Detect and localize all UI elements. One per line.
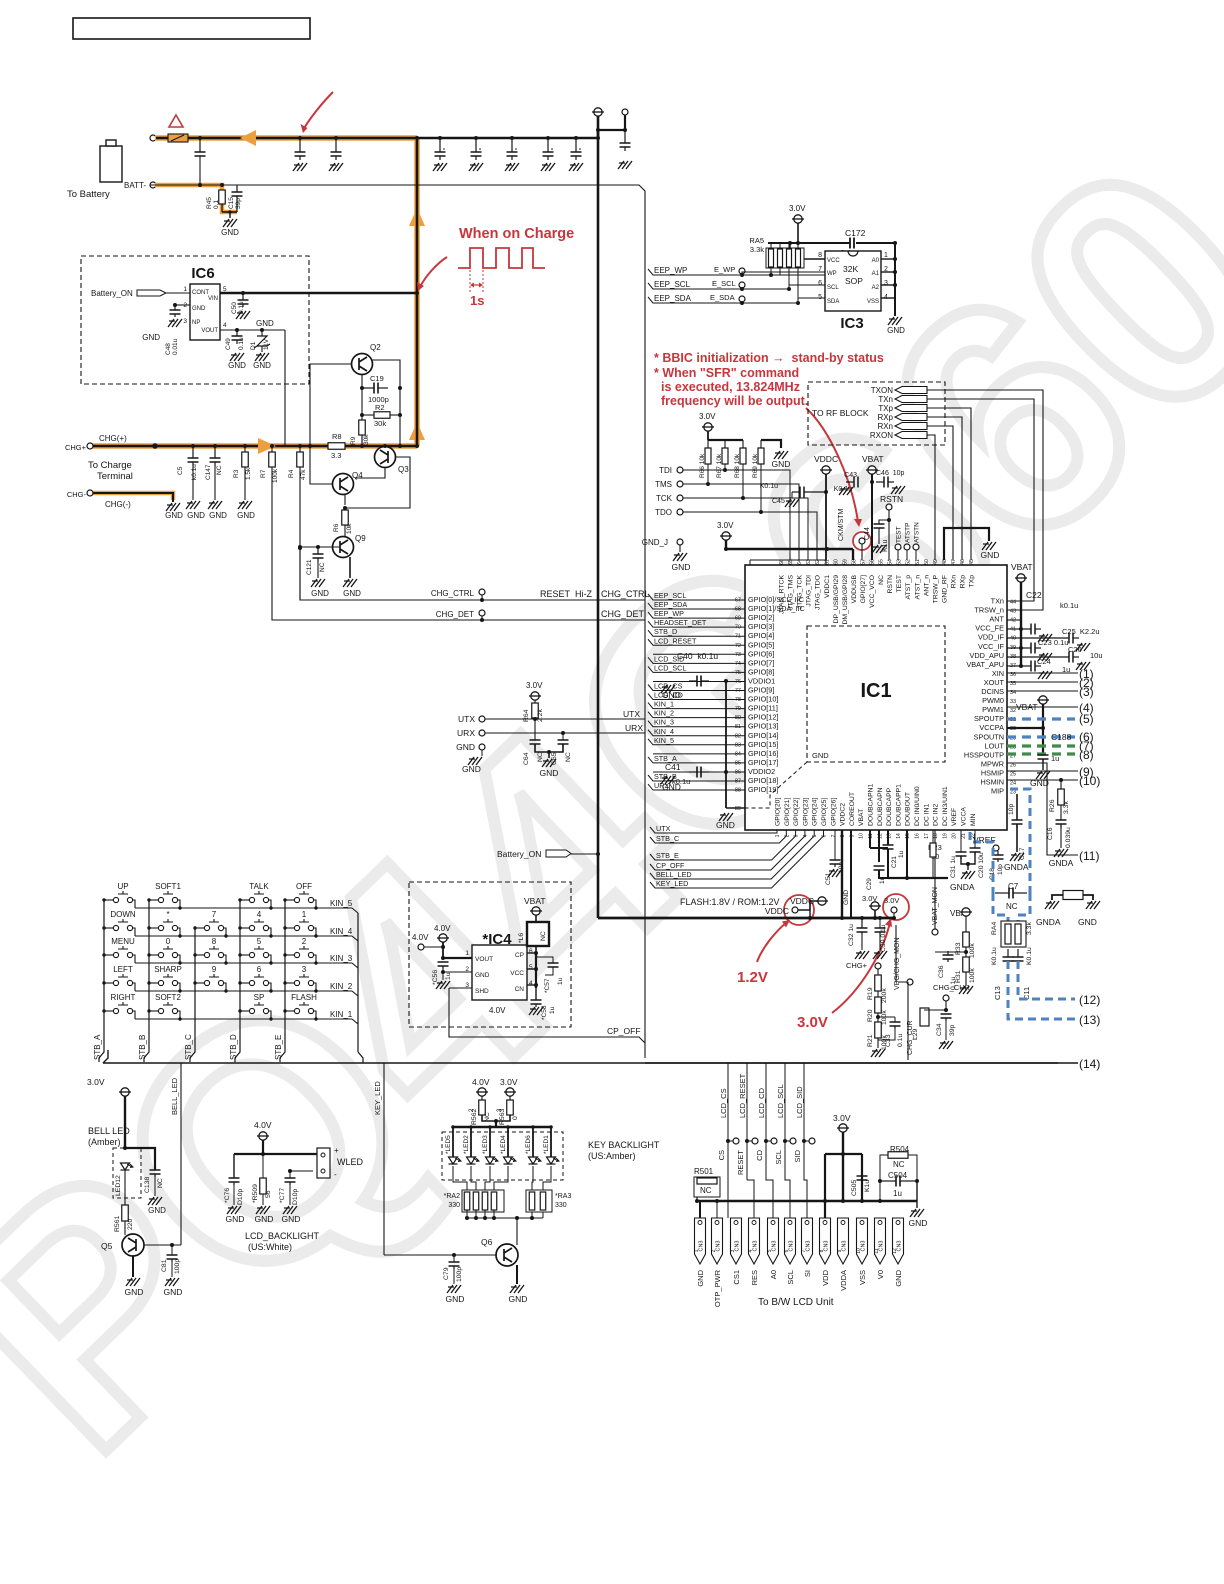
svg-text:VCC: VCC — [827, 258, 840, 264]
svg-text:*L6: *L6 — [518, 933, 525, 943]
IC4 body — [472, 945, 527, 1000]
svg-text:3.3k: 3.3k — [1026, 922, 1033, 935]
svg-text:LCD_SCL: LCD_SCL — [654, 663, 686, 672]
green dashed HSSPOUTP (8) — [1007, 752, 1075, 755]
svg-text:C31 1u: C31 1u — [950, 856, 957, 878]
svg-text:EEP_SCL: EEP_SCL — [654, 591, 686, 600]
svg-text:KIN_4: KIN_4 — [654, 727, 674, 736]
svg-text:R7: R7 — [260, 469, 267, 478]
resistor R4 47k — [298, 444, 302, 448]
svg-text:C23 0.1u: C23 0.1u — [1038, 638, 1068, 647]
svg-text:C19: C19 — [370, 374, 384, 383]
svg-text:RSTN: RSTN — [887, 575, 894, 594]
wire CHG_CUR column — [907, 982, 909, 1060]
svg-text:STB_C: STB_C — [656, 834, 679, 843]
connector pin CN3-12 — [893, 1218, 904, 1264]
svg-text:R8: R8 — [332, 432, 342, 441]
svg-text:DCINS: DCINS — [981, 687, 1004, 696]
red circle 3.0V — [883, 894, 909, 920]
capacitor C13 — [1007, 949, 1009, 957]
svg-text:GND_J: GND_J — [642, 538, 668, 547]
svg-text:LCD_SCL: LCD_SCL — [776, 1084, 785, 1118]
svg-text:0.01u: 0.01u — [172, 338, 179, 355]
diode *LED3 — [489, 1127, 491, 1157]
resistor chain R19 R20 R21 — [877, 969, 879, 975]
svg-text:NC: NC — [565, 752, 572, 762]
svg-text:4.0V: 4.0V — [412, 933, 429, 942]
switch 7 — [204, 925, 209, 930]
zener D1 11V — [260, 328, 264, 332]
svg-text:4: 4 — [257, 910, 262, 919]
connector pin CN3-8 — [820, 1218, 831, 1264]
svg-text:TRSW_n: TRSW_n — [974, 606, 1004, 615]
wires IC3 right side to gnd — [881, 258, 895, 260]
svg-text:TDO: TDO — [655, 508, 672, 517]
svg-text:EEP_SDA: EEP_SDA — [654, 600, 687, 609]
wire switch 5 contacts — [240, 954, 249, 956]
switch 5 — [249, 952, 254, 957]
svg-text:VBAT: VBAT — [1011, 562, 1033, 572]
svg-text:EEP_WP: EEP_WP — [654, 266, 687, 275]
svg-text:C172: C172 — [845, 228, 866, 238]
svg-text:CHG+: CHG+ — [846, 961, 868, 970]
switch 8 — [204, 952, 209, 957]
title box — [73, 18, 310, 39]
keypad row wire KIN_3 — [135, 962, 352, 964]
svg-text:KIN_3: KIN_3 — [654, 718, 674, 727]
svg-text:LCD_CS: LCD_CS — [719, 1088, 728, 1118]
svg-text:TXON: TXON — [871, 386, 893, 395]
ground IC3 — [888, 317, 902, 325]
svg-text:39p: 39p — [949, 1024, 956, 1036]
svg-text:Q9: Q9 — [355, 534, 366, 543]
svg-text:LCD_RESET: LCD_RESET — [738, 1073, 747, 1118]
svg-text:C16: C16 — [1047, 827, 1054, 840]
wire Q3 to Q4 — [355, 467, 385, 478]
svg-text:C22: C22 — [1026, 590, 1042, 600]
wire L6 to CP — [535, 946, 537, 953]
capacitor C31 1u — [960, 830, 962, 852]
orange arrow left on bus — [240, 130, 256, 146]
IC6 dashed box — [81, 256, 309, 384]
wire switch * contacts — [149, 927, 158, 929]
svg-text:C79: C79 — [443, 1267, 450, 1280]
svg-text:(10): (10) — [1079, 774, 1100, 788]
IC3 body — [825, 251, 881, 311]
svg-text:57: 57 — [860, 559, 866, 565]
red warning triangle — [169, 115, 183, 127]
switch MENU — [113, 952, 118, 957]
svg-text:C25 K2.2u: C25 K2.2u — [1062, 627, 1100, 636]
svg-text:CHG_DET: CHG_DET — [436, 610, 474, 619]
wire VDDC2 pin down — [841, 830, 843, 918]
capacitor C32 1u — [860, 916, 864, 920]
svg-text:STB_D: STB_D — [654, 627, 677, 636]
capacitor C57 1u — [536, 957, 553, 963]
orange arrow up on trunk — [409, 208, 425, 226]
green dashed LOUT (7) — [1007, 744, 1075, 747]
svg-text:10: 10 — [856, 1248, 862, 1254]
svg-text:R45: R45 — [206, 197, 213, 209]
svg-text:16: 16 — [915, 833, 921, 839]
svg-text:NC: NC — [537, 752, 544, 762]
svg-text:47: 47 — [951, 559, 957, 565]
switch 4 — [249, 925, 254, 930]
svg-text:DC IN2: DC IN2 — [933, 803, 940, 826]
wire CHG+ line — [92, 445, 417, 447]
svg-text:*LED2: *LED2 — [463, 1135, 470, 1154]
svg-text:GND: GND — [311, 589, 329, 598]
svg-text:BELL_LED: BELL_LED — [170, 1077, 179, 1115]
svg-text:GND: GND — [343, 589, 361, 598]
svg-text:Terminal: Terminal — [97, 471, 133, 482]
svg-text:VCC: VCC — [510, 970, 524, 977]
connector pin CN3-11 — [875, 1218, 886, 1264]
svg-text:RESET: RESET — [736, 1150, 745, 1175]
red circle CKM — [853, 532, 871, 550]
wire VOUT — [220, 329, 285, 331]
svg-text:GND: GND — [843, 890, 850, 905]
svg-text:1: 1 — [694, 1249, 700, 1252]
svg-text:Battery_ON: Battery_ON — [91, 289, 133, 298]
svg-text:Q4: Q4 — [352, 471, 363, 480]
svg-text:VCC_VCO: VCC_VCO — [869, 575, 876, 608]
svg-text:C51: C51 — [825, 872, 832, 885]
svg-text:L29: L29 — [912, 1028, 919, 1040]
svg-text:DOWN: DOWN — [110, 910, 136, 919]
svg-text:2.2k: 2.2k — [537, 709, 544, 722]
wires C64 C65 to gnd — [535, 744, 563, 752]
svg-text:R69 10k: R69 10k — [752, 453, 759, 478]
svg-text:DOUBCAPN: DOUBCAPN — [877, 787, 884, 826]
svg-text:A0: A0 — [872, 258, 880, 264]
svg-text:VCCA: VCCA — [961, 807, 968, 826]
svg-text:KEY_LED: KEY_LED — [373, 1081, 382, 1115]
svg-text:URX: URX — [457, 728, 475, 738]
keypad row wire KIN_2 — [135, 990, 352, 992]
svg-text:GPIO[9]: GPIO[9] — [748, 686, 774, 695]
wire BATT- line — [156, 184, 598, 186]
blue dashed to (13) — [1008, 961, 1075, 1019]
keypad column wire STB_A — [99, 900, 104, 1062]
svg-text:GND: GND — [187, 511, 205, 520]
svg-text:(8): (8) — [1079, 748, 1094, 762]
svg-text:LEFT: LEFT — [113, 965, 133, 974]
svg-text:ANT: ANT — [989, 615, 1004, 624]
svg-text:C48: C48 — [165, 343, 172, 355]
key LED rail — [453, 1126, 551, 1128]
keypad row wire KIN_1 — [135, 1018, 352, 1020]
svg-text:3: 3 — [884, 280, 888, 287]
connector line (4) — [1007, 706, 1078, 708]
svg-text:52: 52 — [906, 559, 912, 565]
connector line (1) — [1007, 672, 1078, 674]
svg-text:-: - — [334, 1170, 337, 1179]
resistor R7 100k — [270, 444, 274, 448]
svg-text:1s: 1s — [470, 293, 484, 308]
svg-text:GND: GND — [1078, 917, 1097, 927]
blue dashed to RA4 — [993, 893, 1008, 921]
svg-text:PWM1: PWM1 — [982, 705, 1004, 714]
switch SP — [249, 1008, 254, 1013]
svg-text:VDDIO1: VDDIO1 — [748, 676, 775, 685]
svg-text:DOUBCAPP1: DOUBCAPP1 — [895, 784, 902, 826]
svg-text:3: 3 — [183, 318, 187, 325]
svg-text:E_SCL: E_SCL — [712, 279, 736, 288]
svg-text:MENU: MENU — [111, 937, 135, 946]
svg-text:KIN_4: KIN_4 — [330, 927, 353, 936]
capacitor C20 10u — [974, 830, 976, 848]
wire switch 9 contacts — [195, 982, 204, 984]
svg-text:BELL_LED: BELL_LED — [656, 870, 692, 879]
svg-text:GND_RF: GND_RF — [941, 575, 948, 603]
svg-text:is executed, 13.824MHz: is executed, 13.824MHz — [661, 380, 800, 394]
svg-text:GPIO[19]: GPIO[19] — [748, 785, 778, 794]
svg-text:C50: C50 — [231, 302, 238, 314]
svg-text:K1u: K1u — [864, 1180, 871, 1192]
svg-text:K0.1u: K0.1u — [991, 947, 998, 965]
svg-text:32K: 32K — [843, 264, 858, 274]
svg-text:VDDC: VDDC — [814, 454, 838, 464]
resistor GNDA-GND bridge — [1052, 895, 1063, 900]
svg-text:TRSW_P: TRSW_P — [932, 575, 939, 604]
wire switch 3 contacts — [285, 982, 294, 984]
capacitor C505 K1u — [857, 1176, 868, 1180]
svg-text:R562: R562 — [471, 1109, 478, 1125]
svg-text:3.3k: 3.3k — [750, 245, 764, 254]
svg-text:k0.1u: k0.1u — [191, 464, 198, 480]
red arrow to charge line — [420, 257, 447, 287]
svg-text:0.1u: 0.1u — [897, 1034, 904, 1047]
svg-text:6: 6 — [818, 280, 822, 287]
vertical thin bus x645 with corner — [150, 185, 645, 1058]
capacitor C34 39p — [944, 1008, 948, 1012]
svg-text:7: 7 — [801, 1249, 807, 1252]
svg-text:VCCPA: VCCPA — [979, 723, 1004, 732]
svg-text:14: 14 — [896, 833, 902, 839]
svg-text:R33: R33 — [955, 942, 962, 955]
svg-text:44: 44 — [1010, 600, 1016, 606]
svg-text:TEST: TEST — [896, 575, 903, 592]
svg-text:*LED1: *LED1 — [543, 1135, 550, 1154]
svg-text:4.0V: 4.0V — [489, 1006, 506, 1015]
svg-text:C43: C43 — [844, 472, 857, 479]
svg-text:A2: A2 — [872, 285, 880, 291]
battery symbol — [100, 146, 122, 182]
svg-text:89: 89 — [735, 806, 741, 812]
svg-text:RESET: RESET — [540, 589, 571, 599]
svg-text:VBAT: VBAT — [524, 896, 546, 906]
net LCD_CD vertical — [765, 1063, 767, 1120]
wire SHD — [449, 987, 472, 989]
svg-text:GND: GND — [192, 306, 206, 312]
diode *LED1 — [550, 1127, 552, 1157]
wire VDDC1 stub — [749, 560, 751, 565]
svg-text:100p: 100p — [174, 1259, 181, 1274]
svg-text:D10p: D10p — [292, 1189, 299, 1205]
svg-text:SOP: SOP — [845, 276, 863, 286]
wires RA5 to rows — [770, 268, 772, 275]
svg-text:(5): (5) — [1079, 712, 1094, 726]
svg-text:VDDC: VDDC — [765, 906, 789, 916]
svg-text:OTP_PWR: OTP_PWR — [713, 1269, 722, 1307]
svg-text:TMS: TMS — [655, 480, 672, 489]
svg-text:*LED4: *LED4 — [500, 1135, 507, 1154]
orange highlight CHG+ trace — [92, 443, 417, 449]
svg-text:IC6: IC6 — [191, 265, 214, 282]
svg-text:LOUT: LOUT — [985, 741, 1005, 750]
wires 3.0V LCD to rail — [842, 1132, 844, 1201]
svg-text:11V: 11V — [263, 338, 270, 350]
svg-text:NC: NC — [540, 931, 547, 941]
net LCD_CS vertical — [727, 1063, 729, 1120]
capacitor C50 0.1u — [242, 293, 244, 300]
svg-text:C21: C21 — [891, 856, 898, 868]
svg-text:100p: 100p — [456, 1267, 463, 1282]
decoupling cap row 1 on BATT+ bus — [298, 136, 302, 140]
svg-text:DOUBOUT: DOUBOUT — [905, 792, 912, 826]
svg-text:JTAG_TMS: JTAG_TMS — [788, 575, 795, 610]
svg-text:C44: C44 — [864, 527, 871, 540]
svg-text:GND: GND — [696, 1269, 705, 1286]
svg-text:1.5k: 1.5k — [245, 467, 252, 480]
svg-text:To Battery: To Battery — [67, 189, 110, 200]
capacitor C30 — [875, 928, 886, 932]
transistor Q3 — [375, 447, 396, 468]
svg-text:4.0V: 4.0V — [434, 924, 451, 933]
svg-text:GND: GND — [475, 972, 490, 979]
svg-text:C188: C188 — [1051, 732, 1072, 742]
svg-text:GPIO[13]: GPIO[13] — [748, 722, 778, 731]
LED12 dashed box — [113, 1148, 141, 1198]
svg-text:UTX: UTX — [623, 709, 640, 719]
resistor R6 10k — [342, 510, 349, 525]
wire 3.0V to LED12 — [124, 1096, 126, 1148]
svg-text:2: 2 — [302, 937, 307, 946]
wire GND_RF thick — [944, 528, 989, 560]
capacitor C43 K0.1u — [846, 481, 854, 483]
svg-text:10p: 10p — [997, 864, 1004, 875]
svg-text:45: 45 — [969, 559, 975, 565]
svg-text:GND: GND — [662, 690, 681, 700]
svg-text:Battery_ON: Battery_ON — [497, 849, 541, 859]
svg-text:EEP_SCL: EEP_SCL — [654, 280, 691, 289]
transistor Q5 — [122, 1234, 144, 1256]
svg-text:GND: GND — [142, 333, 160, 342]
svg-text:SI: SI — [803, 1270, 812, 1277]
svg-text:C45: C45 — [772, 498, 785, 505]
keypad column wire STB_B — [144, 900, 149, 1062]
TO RF BLOCK dashed box — [808, 382, 945, 445]
pin node top right — [622, 109, 628, 115]
svg-text:1: 1 — [465, 950, 469, 957]
svg-text:R68 10k: R68 10k — [734, 453, 741, 478]
svg-text:VCC_IF: VCC_IF — [978, 642, 1004, 651]
wire VOUT down to CHG line — [284, 330, 286, 446]
capacitor C11 — [1017, 949, 1019, 957]
svg-text:KIN_5: KIN_5 — [654, 736, 674, 745]
svg-text:RES: RES — [750, 1270, 759, 1285]
svg-text:VREF: VREF — [951, 808, 958, 826]
wires RA2 RA3 to Q6 — [466, 1210, 468, 1218]
wire Q4 emitter to R6 — [344, 494, 346, 505]
svg-text:GND: GND — [209, 511, 227, 520]
svg-text:SCL: SCL — [827, 285, 839, 291]
svg-text:51: 51 — [915, 559, 921, 565]
svg-text:0: 0 — [166, 937, 171, 946]
svg-text:RXp: RXp — [877, 413, 893, 422]
svg-text:*RA3: *RA3 — [555, 1193, 571, 1200]
svg-text:18: 18 — [933, 833, 939, 839]
svg-text:GND: GND — [772, 459, 791, 469]
svg-text:1u: 1u — [557, 977, 564, 985]
svg-text:0: 0 — [512, 1116, 519, 1120]
blue dashed SPOUTN (6) — [1007, 735, 1075, 738]
switch LEFT — [113, 980, 118, 985]
wire line to (14) — [645, 1062, 1058, 1064]
svg-text:R501: R501 — [694, 1167, 714, 1176]
svg-text:UTX: UTX — [656, 824, 671, 833]
svg-text:GND: GND — [164, 1287, 183, 1297]
wire BELL_LED vertical — [180, 1063, 182, 1245]
wire switch OFF contacts — [285, 899, 294, 901]
svg-text:RXn: RXn — [877, 422, 893, 431]
wire VIN to trunk — [220, 292, 417, 294]
svg-text:C138: C138 — [144, 1177, 151, 1193]
svg-text:8: 8 — [818, 252, 822, 259]
svg-text:R6: R6 — [333, 523, 340, 532]
svg-text:6: 6 — [257, 965, 262, 974]
capacitor C49 0.1u — [236, 330, 238, 336]
svg-text:3.0V: 3.0V — [699, 412, 716, 421]
svg-text:5: 5 — [529, 964, 533, 971]
svg-text:LCD_CD: LCD_CD — [757, 1087, 766, 1118]
resistor R45 0.1 — [220, 183, 224, 187]
connector pin CN3-10 — [857, 1218, 868, 1264]
wire Q5 emitter — [132, 1256, 134, 1277]
keypad row wire KIN_5 — [135, 907, 352, 909]
svg-text:C33: C33 — [885, 1034, 892, 1047]
svg-text:CD: CD — [755, 1149, 764, 1160]
wire Q6 base from KEY_LED — [384, 1254, 497, 1256]
svg-text:330: 330 — [555, 1202, 567, 1209]
svg-text:C24: C24 — [1037, 657, 1051, 666]
svg-text:HEADSET_DET: HEADSET_DET — [654, 618, 707, 627]
capacitor C46 10p — [876, 481, 884, 483]
svg-text:1: 1 — [183, 286, 187, 293]
svg-text:12: 12 — [892, 1248, 898, 1254]
svg-text:When on Charge: When on Charge — [459, 226, 574, 242]
svg-text:VDDC1: VDDC1 — [824, 575, 831, 598]
svg-text:ANT_n: ANT_n — [923, 575, 930, 596]
svg-text:To Charge: To Charge — [88, 460, 132, 471]
svg-text:R4: R4 — [288, 469, 295, 478]
resistor R26 3.3k — [1060, 780, 1062, 789]
svg-text:1u: 1u — [1051, 754, 1059, 763]
transistor Q2 — [352, 354, 373, 375]
svg-text:R563: R563 — [499, 1109, 506, 1125]
resistors R33 R31 100k — [965, 916, 967, 932]
svg-text:JTAG_RTCK: JTAG_RTCK — [779, 575, 786, 614]
svg-text:C36: C36 — [938, 965, 945, 978]
diode *LED6 — [532, 1127, 534, 1157]
diode *LED2 — [470, 1127, 472, 1157]
capacitor C18 10p — [997, 851, 999, 855]
svg-text:*LED3: *LED3 — [482, 1135, 489, 1154]
capacitor C48 0.01u — [175, 304, 190, 306]
svg-text:KIN_2: KIN_2 — [654, 709, 674, 718]
svg-text:Q3: Q3 — [398, 465, 409, 474]
